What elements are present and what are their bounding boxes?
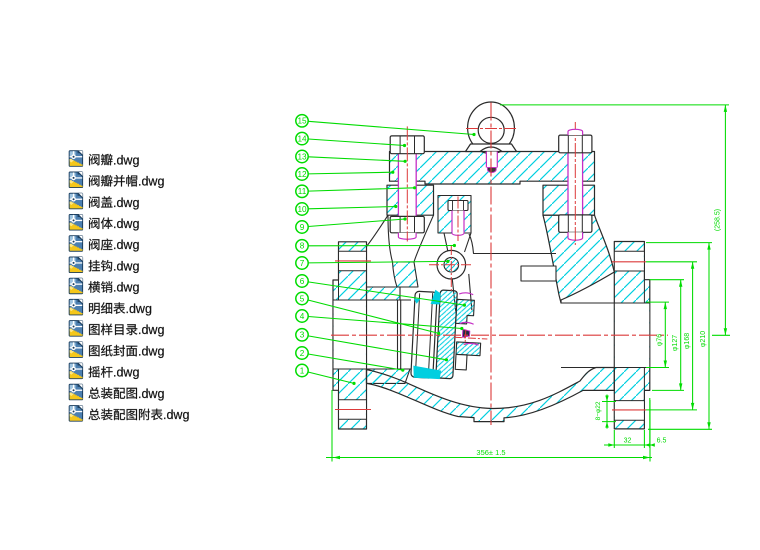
stud bolt right: centerline xyxy=(574,122,576,245)
main horizontal centerline xyxy=(331,334,668,336)
left cavity boundary line xyxy=(414,215,434,262)
right flange bolt hole centerline top xyxy=(612,261,646,263)
svg-text:.dwg: .dwg xyxy=(163,408,189,422)
stud bolt right: bottom nut xyxy=(559,215,592,232)
overall width extension lines xyxy=(332,390,650,462)
dwg file icon row 10 xyxy=(69,342,82,358)
filename 阀座.dwg xyxy=(89,238,139,252)
filename 明细表.dwg xyxy=(89,302,152,316)
dwg file icon row 5 xyxy=(69,236,82,252)
balloon 2 leader xyxy=(308,354,403,370)
balloon 12 xyxy=(296,168,308,180)
stud bolt left: centerline xyxy=(406,126,408,241)
balloon 1 leader xyxy=(308,372,354,383)
bottom body shell band xyxy=(367,368,615,422)
svg-text:11: 11 xyxy=(298,187,307,196)
svg-text:14: 14 xyxy=(297,135,307,144)
stud bolt right: top nut xyxy=(559,135,592,153)
disc nut tip (dark) xyxy=(462,329,469,337)
dimension arrowheads xyxy=(333,105,727,459)
left flange bolt hole bands xyxy=(339,251,366,419)
right bore walls xyxy=(561,303,650,368)
balloon 9 leader xyxy=(308,219,405,227)
stud bolt left: top nut xyxy=(390,136,424,154)
filename 图样目录.dwg xyxy=(89,323,164,337)
svg-text:.dwg: .dwg xyxy=(138,175,164,189)
balloon 6 leader xyxy=(308,282,464,305)
hinge pin centerlines xyxy=(429,245,473,293)
disc nut lower block xyxy=(456,342,481,356)
file list panel xyxy=(69,151,189,422)
dwg file icon row 3 xyxy=(69,193,82,209)
svg-text:6.5: 6.5 xyxy=(657,438,667,445)
weld fillet cyan solid top-left xyxy=(414,299,421,304)
dwg file icon row 12 xyxy=(69,384,82,400)
svg-text:12: 12 xyxy=(297,170,307,179)
dwg file icon row 7 xyxy=(69,278,82,294)
svg-text:7: 7 xyxy=(300,259,305,268)
svg-text:.dwg: .dwg xyxy=(138,387,164,401)
svg-text:φ76: φ76 xyxy=(657,334,664,346)
balloon 5 leader xyxy=(308,300,439,333)
svg-text:6: 6 xyxy=(300,277,305,286)
balloon 15 leader xyxy=(308,121,474,134)
rocker arm edges xyxy=(450,273,473,312)
balloon 13 leader xyxy=(308,157,405,162)
balloon 14 xyxy=(296,132,308,144)
svg-text:.dwg: .dwg xyxy=(138,323,164,337)
eye bolt centerlines xyxy=(466,128,518,130)
eye bolt thread tip xyxy=(488,168,497,173)
eye bolt ring xyxy=(468,102,515,154)
dim 32 extension/dimension xyxy=(604,398,652,448)
balloon 8 xyxy=(296,240,308,252)
balloon 10 xyxy=(296,203,308,215)
disc axis centerline (red) xyxy=(454,329,488,346)
right flange bore opening xyxy=(615,303,649,368)
filename 横销.dwg xyxy=(88,281,139,295)
main vertical centerline xyxy=(490,103,492,426)
svg-text:.dwg: .dwg xyxy=(113,217,139,231)
svg-text:.dwg: .dwg xyxy=(113,260,139,274)
dwg file icon row 1 xyxy=(69,151,82,167)
stud bolt left: shank xyxy=(398,154,416,217)
svg-text:.dwg: .dwg xyxy=(113,153,139,167)
filename 总装配图附表.dwg xyxy=(89,408,190,422)
svg-text:10: 10 xyxy=(297,205,307,214)
bonnet plate (section hatch) xyxy=(390,152,595,185)
dwg file icon row 4 xyxy=(69,215,82,231)
hinge bracket bolt: centerline xyxy=(457,197,459,242)
hinge bracket bolt: shank xyxy=(452,211,464,232)
left body wall band xyxy=(393,262,419,287)
left bore walls xyxy=(333,300,411,369)
weld fillet cyan solid top xyxy=(431,290,441,305)
eye bolt collar arc xyxy=(480,147,502,152)
disc (valve flap section) xyxy=(436,290,458,379)
left body outer wall line xyxy=(388,215,393,262)
balloon 3 xyxy=(296,329,308,341)
seat press-fit lines xyxy=(398,300,401,369)
body bonnet-flange right block xyxy=(543,185,595,215)
rocker upper link xyxy=(444,233,471,252)
balloon 4 leader xyxy=(308,317,462,329)
seat ring face lines xyxy=(415,292,432,377)
svg-text:.dwg: .dwg xyxy=(113,281,139,295)
filename 摇杆.dwg xyxy=(89,366,140,380)
left neck transition line xyxy=(367,215,389,246)
hinge bracket bolt: tip xyxy=(452,232,464,236)
eye bolt skirt xyxy=(466,144,517,152)
dwg file icon row 2 xyxy=(69,172,82,188)
balloon 12 leader xyxy=(308,172,393,174)
svg-text:9: 9 xyxy=(300,223,305,232)
svg-text:.dwg: .dwg xyxy=(113,196,139,210)
svg-text:15: 15 xyxy=(297,117,307,126)
svg-text:φ210: φ210 xyxy=(700,331,707,347)
eye bolt shank in bonnet xyxy=(486,152,497,168)
stud bolt left: lower tip xyxy=(398,233,416,239)
balloon 2 xyxy=(296,347,308,359)
hinge bracket block xyxy=(438,196,471,234)
balloon 14 leader xyxy=(308,139,404,146)
seat stop lug xyxy=(521,266,556,281)
thread arc upper (magenta) xyxy=(460,322,474,324)
filename 阀瓣并帽.dwg xyxy=(89,175,164,189)
balloon 15 xyxy=(296,115,308,127)
svg-text:3: 3 xyxy=(300,331,305,340)
filename 图纸封面.dwg xyxy=(89,344,164,358)
balloon 4 xyxy=(296,310,308,322)
svg-text:356± 1.5: 356± 1.5 xyxy=(476,448,505,457)
right flange bolt hole centerline bottom xyxy=(612,409,646,411)
eye bolt hole xyxy=(478,117,504,143)
left hub wall bottom band xyxy=(367,369,411,383)
filename 阀体.dwg xyxy=(89,217,139,231)
balloon 11 leader xyxy=(308,188,414,191)
balloon 3 leader xyxy=(308,336,446,360)
dim 8-phi22 lines xyxy=(602,395,616,429)
svg-text:.dwg: .dwg xyxy=(113,238,139,252)
svg-text:.dwg: .dwg xyxy=(113,366,139,380)
disc guide step xyxy=(455,354,467,370)
balloon 8 leader xyxy=(308,245,454,247)
balloon 7 leader xyxy=(308,261,448,263)
right flange raised face line xyxy=(643,280,645,391)
dwg file icon row 9 xyxy=(69,321,82,337)
weld fillet cyan solid bottom xyxy=(413,366,442,379)
svg-text:.dwg: .dwg xyxy=(126,302,152,316)
svg-text:φ127: φ127 xyxy=(672,335,679,351)
svg-text:φ168: φ168 xyxy=(684,333,691,349)
phi127 dim xyxy=(650,280,685,391)
rocker hinge boss xyxy=(437,250,466,279)
phi168 dim xyxy=(646,262,697,410)
overall width dimension line xyxy=(326,457,652,459)
filename 总装配图.dwg xyxy=(89,387,165,401)
balloon 5 xyxy=(296,292,308,304)
right cavity boundary curve xyxy=(469,234,556,254)
hinge bracket bolt: head xyxy=(448,201,468,211)
svg-text:8−φ22: 8−φ22 xyxy=(595,401,602,420)
left flange bore opening xyxy=(334,300,366,369)
svg-text:8: 8 xyxy=(300,242,305,251)
seat ring (side view) xyxy=(411,291,437,378)
dwg file icon row 11 xyxy=(69,363,82,379)
balloon 6 xyxy=(296,275,308,287)
valve body left flange (section hatch) xyxy=(333,242,367,429)
balloon 9 xyxy=(296,221,308,233)
svg-text:13: 13 xyxy=(297,152,307,161)
right body arch wall band xyxy=(543,215,614,303)
stud bolt right: shank xyxy=(568,153,583,215)
body bonnet-flange left block xyxy=(387,185,434,215)
phi76 dim xyxy=(646,302,669,367)
svg-text:32: 32 xyxy=(624,438,632,445)
balloon 11 xyxy=(296,185,308,197)
dim 258.5 lines xyxy=(500,105,730,335)
stud bolt right: lower tip xyxy=(568,232,583,240)
stud bolt left: bottom nut xyxy=(390,216,424,232)
filename 阀盖.dwg xyxy=(89,196,139,210)
filename 阀瓣.dwg xyxy=(89,153,139,167)
balloon 10 leader xyxy=(308,207,396,209)
thread arc boss top (magenta) xyxy=(459,292,473,294)
left flange raised face line xyxy=(338,280,340,390)
left hub wall top band xyxy=(367,287,401,300)
left flange bolt hole centerline bottom xyxy=(335,409,371,411)
svg-text:5: 5 xyxy=(300,294,305,303)
left flange bolt hole centerline top xyxy=(335,260,371,262)
hinge pin (hatched) xyxy=(444,257,459,272)
disc boss upper xyxy=(456,299,475,324)
svg-text:4: 4 xyxy=(300,312,305,321)
thread arc lower (magenta) xyxy=(464,343,479,345)
filename 挂钩.dwg xyxy=(89,260,140,274)
right flange (section hatch) xyxy=(614,242,650,429)
phi210 dim xyxy=(646,243,712,430)
svg-text:.dwg: .dwg xyxy=(138,344,164,358)
balloon 13 xyxy=(296,150,308,162)
right flange bolt hole bands xyxy=(615,251,644,420)
svg-text:2: 2 xyxy=(300,349,305,358)
dwg file icon row 6 xyxy=(69,257,82,273)
dwg file icon row 13 xyxy=(69,406,82,422)
balloon 7 xyxy=(296,257,308,269)
dwg file icon row 8 xyxy=(69,299,82,315)
stud bolt right: upper tip xyxy=(568,129,583,135)
svg-text:(258.5): (258.5) xyxy=(715,209,722,231)
balloon 1 xyxy=(296,364,308,376)
svg-text:1: 1 xyxy=(300,366,305,375)
